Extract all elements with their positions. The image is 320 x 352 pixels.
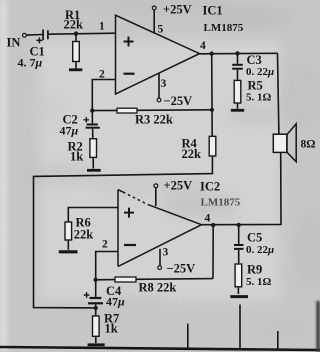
bottom border line	[0, 347, 320, 350]
resistor R8	[96, 277, 213, 282]
bottom stub wire a	[187, 324, 189, 349]
svg-text:IC1: IC1	[203, 4, 223, 18]
wire R4 to C4/R7 node loop	[34, 156, 213, 308]
svg-text:LM1875: LM1875	[204, 22, 244, 34]
junction C4/R7/loop wire	[94, 306, 98, 310]
wire output to speaker top	[278, 53, 279, 134]
svg-text:3: 3	[163, 247, 169, 259]
resistor R7	[93, 316, 100, 343]
svg-text:+25V: +25V	[164, 179, 193, 193]
svg-text:4. 7μ: 4. 7μ	[18, 56, 43, 70]
svg-text:−25V: −25V	[164, 94, 193, 108]
svg-text:47μ: 47μ	[60, 124, 79, 138]
svg-text:5. 1Ω: 5. 1Ω	[246, 92, 272, 104]
svg-text:1: 1	[99, 21, 105, 33]
bottom stub wire c	[277, 331, 279, 350]
svg-text:4: 4	[200, 40, 206, 52]
capacitor C1	[36, 30, 48, 44]
svg-text:47μ: 47μ	[106, 295, 125, 309]
resistor R4	[209, 136, 216, 156]
svg-text:22k: 22k	[64, 18, 84, 32]
junction IC2 output/R8	[211, 223, 215, 227]
pin 3 (V-) IC1	[157, 73, 161, 102]
capacitor C4	[84, 280, 103, 316]
right edge shadow	[316, 301, 320, 352]
svg-text:3: 3	[161, 78, 167, 90]
wire IC1 output	[200, 52, 278, 55]
resistor R3	[92, 108, 212, 113]
ground R5	[231, 109, 244, 112]
capacitor C3	[232, 53, 243, 80]
junction pin2/C4/R8	[94, 278, 98, 282]
capacitor C2	[84, 111, 100, 139]
svg-text:R8 22k: R8 22k	[139, 281, 177, 295]
junction node input/R1	[74, 31, 78, 35]
svg-text:R3 22k: R3 22k	[135, 113, 173, 127]
capacitor C5	[234, 225, 244, 264]
svg-text:5: 5	[158, 24, 164, 36]
pin 5 (V+) IC2	[154, 184, 158, 206]
input terminal IN	[23, 33, 27, 37]
svg-text:R5: R5	[248, 79, 263, 93]
pin 5 (V+) IC1	[152, 6, 156, 33]
svg-text:22k: 22k	[182, 147, 202, 161]
wire C1 to pin1	[48, 33, 115, 34]
bottom stub wire b	[239, 305, 241, 351]
wire pin2 IC2	[96, 252, 118, 280]
svg-text:R9: R9	[247, 263, 262, 277]
plus input marker IC2	[124, 208, 134, 218]
resistor R5	[234, 80, 241, 108]
wire output down to R4	[211, 54, 214, 137]
svg-text:5. 1Ω: 5. 1Ω	[246, 276, 272, 288]
wire R8 up to IC2 output	[212, 225, 214, 279]
wire pin2 IC1 feedback	[92, 80, 115, 111]
minus input marker IC2	[124, 244, 136, 246]
svg-text:1k: 1k	[70, 150, 83, 164]
speaker LS	[273, 124, 296, 162]
ground R7	[88, 343, 105, 346]
svg-text:0. 22μ: 0. 22μ	[246, 66, 274, 78]
ground R2	[87, 169, 101, 172]
svg-text:LM1875: LM1875	[201, 197, 241, 209]
junction IC2 output/C5	[237, 223, 241, 227]
op-amp U2 IC2 triangle	[118, 190, 202, 267]
ground R6	[59, 250, 78, 253]
resistor R2	[90, 139, 97, 169]
junction output/C3	[235, 51, 239, 55]
svg-text:1k: 1k	[105, 322, 118, 336]
svg-text:+25V: +25V	[163, 3, 192, 17]
ground R9	[230, 295, 248, 298]
svg-text:0. 22μ: 0. 22μ	[246, 244, 274, 256]
resistor R9	[235, 264, 242, 294]
pin 3 (V-) IC2	[158, 249, 162, 270]
junction pin2/C2/R3	[90, 108, 94, 112]
svg-text:IC2: IC2	[200, 180, 220, 194]
op-amp U1 IC1 triangle	[116, 15, 200, 94]
svg-text:IN: IN	[7, 36, 21, 50]
junction output/R3-R4	[210, 51, 214, 55]
resistor R6	[65, 222, 72, 250]
svg-text:4: 4	[205, 213, 211, 225]
svg-text:22k: 22k	[74, 228, 94, 242]
ground R1	[69, 68, 82, 71]
plus input marker IC1	[124, 37, 134, 47]
svg-text:8Ω: 8Ω	[301, 139, 316, 151]
svg-text:2: 2	[102, 239, 108, 251]
minus input marker IC1	[124, 73, 135, 75]
resistor R1	[73, 34, 80, 69]
svg-text:C5: C5	[247, 231, 262, 245]
wire speaker to IC2 output	[202, 152, 282, 224]
svg-text:−25V: −25V	[167, 262, 196, 276]
junction R3 right end	[210, 108, 214, 112]
wire + input IC2 to R6	[68, 208, 118, 223]
wire input to C1	[26, 34, 42, 37]
